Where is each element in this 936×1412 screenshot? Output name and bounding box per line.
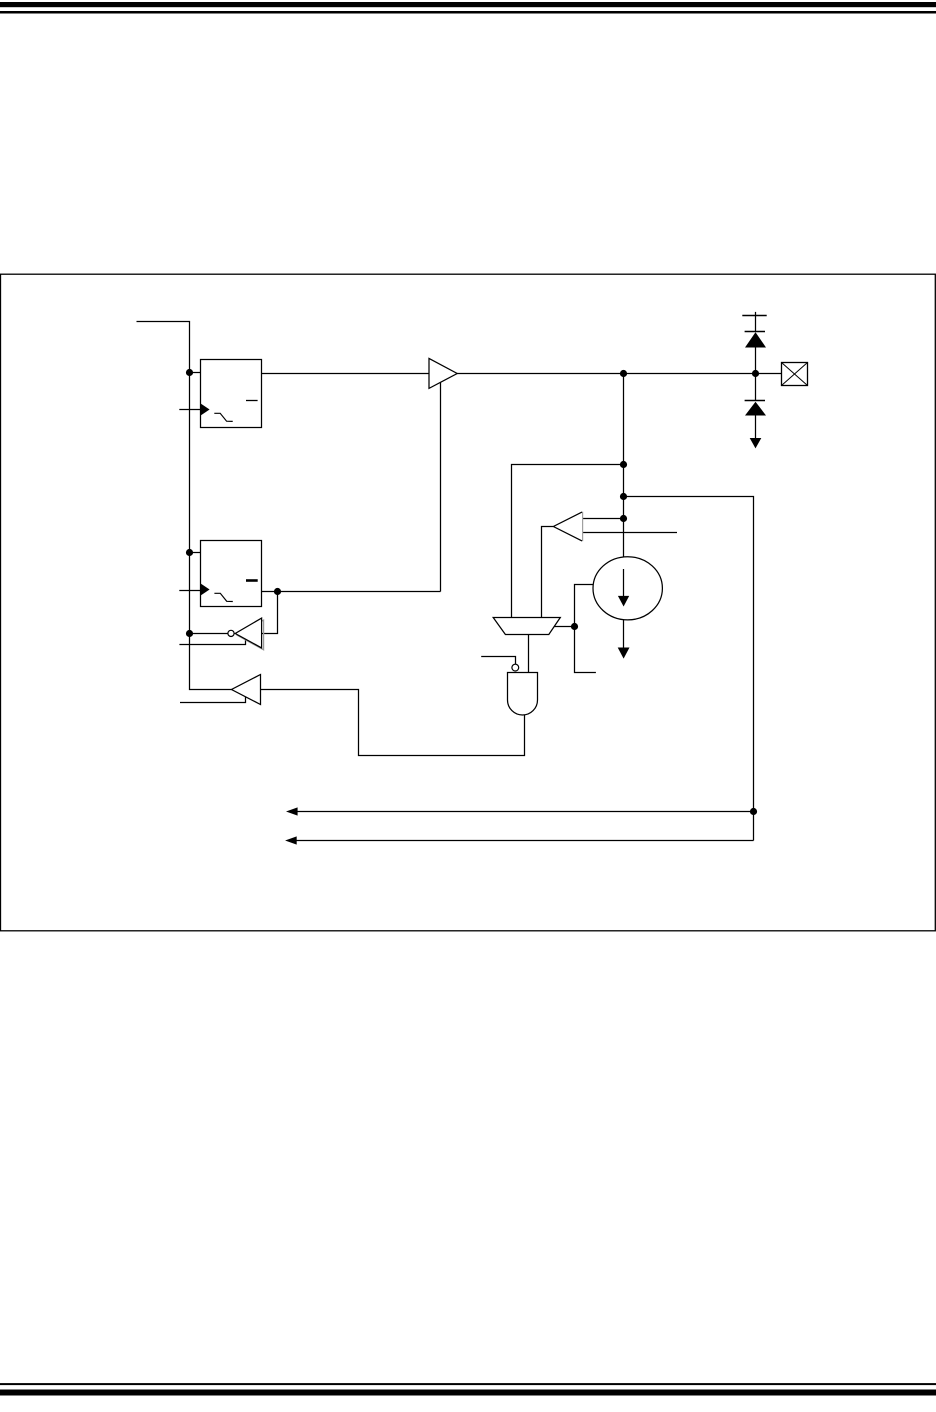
wire RD PORT arrow line [296,811,754,813]
node pin net feedback tap [620,493,627,500]
wire current source gate run [575,585,596,673]
node pin line diodes [752,370,759,377]
arrowhead second [285,836,297,844]
wire output buffer to pin pad [457,373,782,375]
wire data latch D input [190,372,201,374]
NAND gate input bubble [512,664,519,671]
TRIS latch clock wedge [201,584,210,595]
wire TRIS latch Q run [262,591,441,593]
wire TRIS latch CK input [179,590,200,592]
arrowhead current source to VSS [618,648,630,659]
protection diode to VSS [745,402,766,416]
wire TRIS latch D input [190,552,201,554]
Schmitt trigger input buffer [553,512,582,541]
VSS arrowhead below diode [750,438,762,448]
node data bus / data latch D [186,369,193,376]
wire tri-state enable from TRIS Q [440,383,442,592]
wire Schmitt output to mux right input [542,527,554,618]
TRIS latch [201,541,262,607]
protection diode to VSS cathode bar [755,374,757,401]
wire data latch Q to output buffer [262,373,430,375]
I/O pin pad [782,363,808,386]
footer rules [0,1383,936,1385]
wire RD TRIS enable stub [179,639,245,645]
TRIS latch enable curve [214,593,232,601]
node pin net mux tap [620,461,627,468]
port read buffer [232,675,261,705]
wire pin net vertical [623,374,625,558]
wire mux output to NAND input [528,635,530,673]
figure frame [1,274,936,931]
protection diode to VDD cathode bar [745,331,765,333]
wire RD PORT enable stub [180,697,246,703]
tri-state output buffer [429,358,457,388]
weak pull-up current source [593,557,662,620]
TRIS read inverter shadow [237,620,263,650]
node feedback rail / arrow line [750,808,757,815]
Schmitt trigger input buffer base (gray) [581,512,583,542]
VDD rail symbol [755,312,757,332]
node pin line branch [620,370,627,377]
NAND gate [508,673,538,716]
data latch enable curve [214,413,232,421]
wire data latch CK input [179,409,200,411]
node mux select / current source gate [571,623,578,630]
wire port read buffer input from NAND output [261,690,525,756]
wire pin net to Schmitt input [582,518,624,520]
node data bus / TRIS latch D [186,549,193,556]
arrowhead RD PORT [286,807,298,815]
node data bus / inverter output [186,630,193,637]
current source output line [623,620,625,649]
TRIS latch Q-bar label bar [246,579,258,582]
wire mux select tap [554,626,575,628]
data latch Q-bar label bar [246,400,258,402]
node TRIS Q tap [274,588,281,595]
analog input mux [493,618,560,635]
TRIS read inverter bubble [228,630,234,636]
TRIS read inverter [235,618,261,648]
header rules [0,2,936,7]
node pin net Schmitt tap [620,515,627,522]
wire TRIS read inverter output to bus [190,633,235,635]
wire data bus vertical with top stub and port-read output run [137,322,232,690]
protection diode to VDD [745,332,766,347]
wire pin net feedback to right rail [624,497,754,841]
wire TRIS read inverter input tap [262,592,278,634]
wire NAND inverted input stub [481,657,515,665]
current source internal arrow [623,569,625,597]
wire Schmitt second input stub [582,532,678,534]
data latch [201,360,262,428]
wire second arrow line [295,840,754,842]
wire pin net to mux left input [512,465,624,618]
data latch clock wedge [201,404,210,415]
